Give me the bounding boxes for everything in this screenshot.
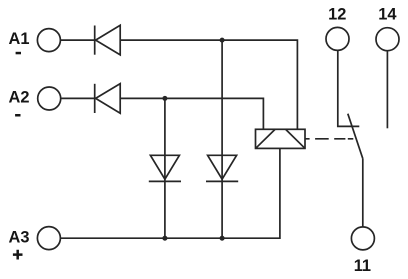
- terminal A2: [38, 87, 61, 110]
- wire arm to terminal 11: [362, 158, 364, 226]
- terminal A3: [37, 227, 60, 250]
- wire A3 bottom line to coil: [60, 148, 280, 238]
- diode D1 triangle: [96, 25, 121, 55]
- node junction bottom right: [220, 236, 225, 241]
- wire 14 open contact: [386, 51, 388, 129]
- terminal 14: [376, 28, 399, 51]
- label A1 minus: [16, 52, 21, 55]
- svg-text:14: 14: [378, 5, 397, 23]
- svg-text:A3: A3: [9, 229, 30, 247]
- diode D1 cathode bar: [94, 26, 96, 55]
- node junction on A2 line: [162, 96, 167, 101]
- label A2 minus: [15, 114, 20, 117]
- diode D4 triangle: [208, 155, 237, 179]
- relay coil K1 right diagonal: [286, 130, 305, 149]
- wire A1 line right: [120, 40, 297, 129]
- diode D2 triangle: [96, 84, 121, 114]
- svg-text:11: 11: [354, 257, 371, 275]
- diode D3 cathode bar: [149, 180, 181, 182]
- label A3 plus: [13, 250, 23, 260]
- wire 12 down to fixed contact: [338, 50, 360, 126]
- node junction bottom left: [162, 236, 167, 241]
- relay coil K1 body: [256, 129, 306, 148]
- diode D4 cathode bar: [206, 180, 238, 182]
- diode D2 cathode bar: [94, 84, 96, 113]
- contact moving arm: [348, 114, 363, 159]
- terminal 11: [351, 227, 374, 250]
- svg-text:A2: A2: [9, 89, 30, 107]
- svg-text:12: 12: [328, 5, 346, 23]
- node junction on A1 line: [220, 38, 225, 43]
- diode D3 triangle: [150, 155, 179, 179]
- terminal A1: [37, 29, 60, 52]
- wire A1 to diode D1: [60, 39, 94, 41]
- svg-text:A1: A1: [9, 30, 30, 48]
- mechanical link dashed: [305, 138, 354, 140]
- wire A2 line right to coil: [120, 98, 263, 129]
- wire vertical from A1 junction: [221, 40, 223, 238]
- relay coil K1 left diagonal: [256, 130, 275, 149]
- terminal 12: [326, 27, 349, 50]
- wire vertical from A2 junction: [164, 98, 166, 238]
- wire A2 to diode D2: [61, 97, 95, 99]
